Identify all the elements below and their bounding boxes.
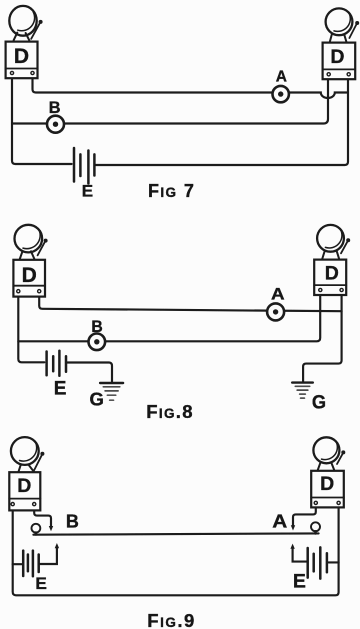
battery E (Fig7) plates: long short long short — [74, 148, 94, 184]
bell D3 box — [13, 260, 45, 297]
bell D2 terminal pins — [327, 73, 350, 76]
bell D1 clapper hammer — [31, 20, 42, 39]
bell D3 stand — [20, 251, 35, 260]
wire: Fig7 top line from left bell right terminal through button A, with hop under vertical, to right vertical junction — [33, 75, 349, 99]
bell D2 terminal strip divider — [323, 68, 356, 70]
earth ground G (Fig8 right) — [292, 383, 313, 399]
bell D4 stand — [322, 251, 339, 259]
bell D2 stand — [330, 35, 347, 43]
wire: Fig8 net B - from left vertical junction through button B, up to right bell left terminal — [18, 292, 320, 342]
wire: Fig9 left key blade from left bell right terminal, ending in down arrow — [34, 506, 51, 527]
svg-text:FIG.9: FIG.9 — [147, 610, 196, 629]
bell D2 box — [323, 43, 356, 80]
arrowhead: Fig9 right battery arrow (points up) — [290, 544, 294, 549]
battery E (Fig9 left) plates: long short long short — [23, 551, 39, 577]
bell D4 box — [314, 260, 346, 295]
bell ringer D5 Fig9-left: gong — [11, 437, 39, 465]
push button B (Fig8) — [89, 334, 106, 351]
wire: Fig8 right bell right terminal down, jog left, to right earth ground — [303, 292, 342, 382]
wire: Fig9 left battery left lead from loop vertical — [13, 563, 22, 565]
contact stud (Fig9 right key) — [311, 522, 320, 533]
bell D5 terminal strip divider — [9, 498, 40, 500]
svg-text:E: E — [35, 575, 47, 593]
bell D1 gong inner rim arc — [18, 12, 35, 31]
svg-text:G: G — [90, 388, 104, 409]
bell D3 terminal strip divider — [13, 285, 45, 287]
wire: Fig8 battery output to left earth ground — [66, 363, 112, 382]
bell D6 box — [311, 471, 344, 508]
wire: Fig8 left bell right terminal to top line through button A to right bell right terminal vertical — [39, 293, 341, 312]
bell D3 clapper hammer — [38, 239, 48, 256]
bell ringer D3 Fig8-left: gong — [14, 225, 42, 253]
svg-text:E: E — [54, 379, 67, 400]
push button A (Fig8) — [267, 303, 284, 320]
wire: Fig9 line between stations (middle long wire) — [33, 533, 318, 534]
bell D3 terminal pins — [17, 290, 41, 293]
wire: Fig9 left battery right lead with up arrow to key — [40, 548, 57, 564]
bell ringer D2 Fig7-right: gong — [326, 8, 353, 35]
bell D6 terminal pins — [314, 501, 340, 504]
push button A (Fig7) — [273, 86, 289, 102]
svg-text:FIG.8: FIG.8 — [146, 401, 194, 422]
svg-text:B: B — [66, 512, 79, 532]
svg-text:D: D — [14, 45, 29, 68]
earth ground G (Fig8 left) — [100, 383, 123, 400]
bell D5 box — [9, 472, 40, 510]
bell D4 gong inner rim arc — [325, 230, 342, 248]
wire: Fig7 net B - branch at left vertical, through button B, up to right bell left terminal — [12, 76, 328, 123]
svg-text:A: A — [272, 512, 287, 532]
push button B (Fig7) — [47, 116, 64, 133]
bell D4 terminal strip divider — [314, 284, 346, 286]
arrowhead: Fig9 left key blade (points down) — [49, 526, 53, 531]
wire: Fig9 right key blade from right bell left terminal, ending in down arrow — [293, 504, 316, 526]
wire: Fig7 right bell right terminal down to battery bottom line — [95, 76, 348, 165]
wire: Fig9 right battery left lead with up arrow to key — [293, 548, 307, 561]
bell D5 clapper hammer — [34, 452, 44, 471]
bell D1 box — [6, 42, 38, 79]
svg-text:A: A — [276, 68, 287, 85]
svg-text:G: G — [312, 393, 326, 414]
svg-text:D: D — [330, 46, 344, 68]
bell D1 terminal pins — [10, 71, 34, 74]
wire: Fig9 right battery right lead to loop vertical — [328, 561, 338, 563]
svg-text:D: D — [22, 264, 37, 287]
bell ringer D1 Fig7-left: gong — [9, 6, 36, 36]
svg-text:D: D — [320, 473, 334, 495]
svg-text:B: B — [91, 318, 102, 336]
arrowhead: Fig9 right key blade (points down) — [291, 525, 295, 530]
svg-text:A: A — [271, 286, 285, 304]
bell D5 gong inner rim arc — [20, 442, 37, 461]
bell ringer D4 Fig8-right: gong — [317, 225, 344, 252]
arrowhead: Fig9 left battery arrow (points up) — [55, 543, 59, 548]
wire: Fig9 loop - left bell left terminal down, along bottom, up to right bell right terminal — [13, 505, 339, 596]
bell D6 terminal strip divider — [311, 497, 344, 499]
wire: Fig7 left bell D left terminal down to battery bottom line — [12, 75, 72, 165]
battery E (Fig9 right) plates: long short long short — [308, 547, 327, 578]
bell D5 terminal pins — [11, 503, 36, 506]
svg-text:FIG 7: FIG 7 — [148, 181, 195, 201]
bell D4 terminal pins — [319, 288, 344, 291]
bell D6 gong inner rim arc — [322, 442, 338, 460]
bell D2 gong inner rim arc — [334, 13, 350, 31]
svg-text:B: B — [49, 98, 61, 117]
bell D1 terminal strip divider — [6, 68, 38, 70]
svg-text:E: E — [293, 570, 306, 592]
bell D1 stand — [14, 33, 30, 41]
svg-text:D: D — [325, 262, 339, 284]
bell D4 clapper hammer — [341, 238, 350, 253]
bell D2 clapper hammer — [349, 21, 359, 38]
contact stud (Fig9 left key) — [32, 524, 41, 535]
bell D6 clapper hammer — [337, 450, 345, 464]
svg-text:D: D — [17, 475, 31, 497]
bell D5 stand — [18, 464, 33, 472]
wire: Fig8 left bell left terminal down past net-B junction to battery E — [18, 293, 44, 363]
svg-text:E: E — [82, 182, 93, 201]
battery E (Fig8) plates: long short long short — [47, 351, 66, 376]
bell D6 stand — [318, 463, 335, 471]
bell D3 gong inner rim arc — [23, 230, 40, 249]
bell ringer D6 Fig9-right: gong — [313, 437, 339, 463]
